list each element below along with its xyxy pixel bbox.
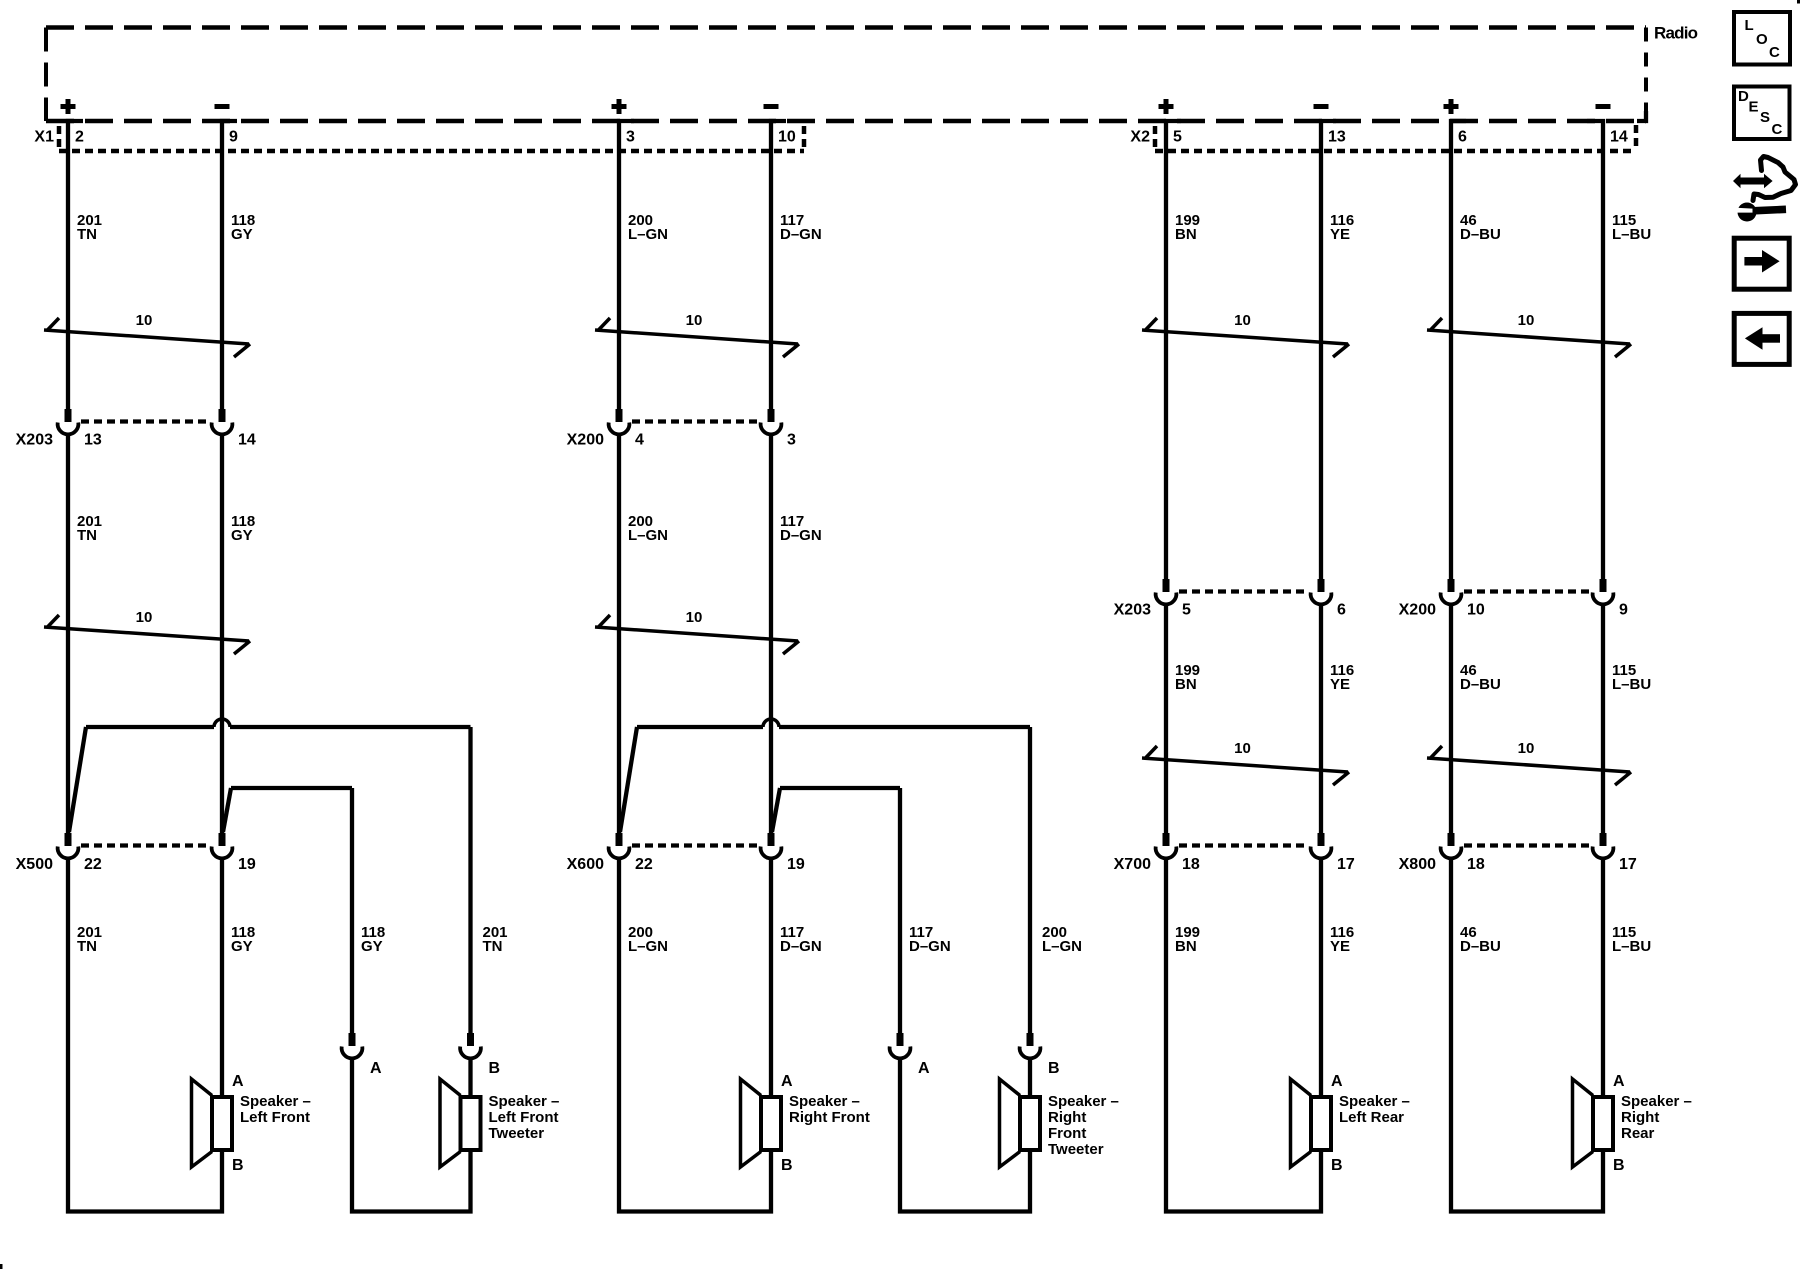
svg-text:L: L — [1745, 17, 1754, 34]
twisted pair symbol (10) — [595, 330, 798, 344]
polarity + above pin 3 — [612, 104, 627, 109]
wire 115 L–BU to speaker A — [1601, 858, 1605, 1097]
svg-text:17: 17 — [1337, 856, 1355, 873]
speaker - Right Front Tweeter — [1000, 1079, 1021, 1167]
svg-text:Left Rear: Left Rear — [1339, 1109, 1404, 1126]
svg-text:10: 10 — [136, 312, 153, 329]
polarity + above pin 5 — [1159, 104, 1174, 109]
svg-text:Tweeter: Tweeter — [1048, 1141, 1104, 1158]
wire 201 TN from radio pin (segment 1) — [68, 121, 83, 411]
svg-text:10: 10 — [1234, 312, 1251, 329]
svg-text:L–GN: L–GN — [628, 226, 668, 243]
speaker connector X500 pin 19 — [219, 833, 226, 846]
inline connector X203 pin 13 — [65, 409, 72, 422]
svg-text:X200: X200 — [1399, 602, 1436, 619]
diagnostic tools icon — [1740, 178, 1765, 185]
DESC reference box — [1734, 87, 1790, 140]
svg-text:18: 18 — [1467, 856, 1485, 873]
wire branch 200 L–GN to tweeter B — [620, 727, 637, 832]
wire 201 TN (segment 2) — [66, 434, 70, 835]
X800 dotted link — [1464, 843, 1590, 847]
svg-text:18: 18 — [1182, 856, 1200, 873]
svg-text:Right: Right — [1621, 1109, 1659, 1126]
svg-text:A: A — [918, 1060, 930, 1077]
polarity - above pin 9 — [215, 104, 230, 109]
speaker connector X500 pin 22 — [65, 833, 72, 846]
wire 118 GY (segment 2) — [220, 434, 224, 835]
wire 199 BN loop to speaker B — [1166, 858, 1321, 1212]
svg-text:10: 10 — [136, 609, 153, 626]
svg-text:D–GN: D–GN — [780, 226, 822, 243]
svg-text:B: B — [489, 1060, 501, 1077]
svg-text:D–BU: D–BU — [1460, 226, 1501, 243]
svg-text:C: C — [1772, 121, 1783, 138]
svg-text:S: S — [1760, 109, 1770, 126]
svg-text:X500: X500 — [16, 856, 53, 873]
svg-text:A: A — [232, 1073, 244, 1090]
svg-text:10: 10 — [778, 129, 796, 146]
svg-text:Speaker –: Speaker – — [240, 1093, 311, 1110]
polarity + above pin 2 — [61, 104, 76, 109]
svg-text:D–GN: D–GN — [909, 938, 951, 955]
svg-text:X2: X2 — [1130, 129, 1150, 146]
svg-text:L–GN: L–GN — [1042, 938, 1082, 955]
polarity + above pin 6 — [1444, 104, 1459, 109]
wire 117 D–GN (segment 2) — [769, 434, 773, 835]
wire 115 L–BU from radio pin (segment 1) — [1587, 121, 1603, 583]
svg-text:22: 22 — [84, 856, 102, 873]
wire 118 GY to speaker A — [220, 858, 224, 1097]
speaker connector X700 pin 18 — [1163, 833, 1170, 846]
polarity - above pin 13 — [1314, 104, 1329, 109]
svg-text:B: B — [1048, 1060, 1060, 1077]
svg-text:D–GN: D–GN — [780, 527, 822, 544]
wire 116 YE from radio pin (segment 1) — [1321, 121, 1336, 583]
svg-text:Speaker –: Speaker – — [1048, 1093, 1119, 1110]
svg-text:3: 3 — [787, 432, 796, 449]
svg-text:Right: Right — [1048, 1109, 1086, 1126]
polarity - above pin 14 — [1596, 104, 1611, 109]
inline connector X200 pin 9 — [1600, 579, 1607, 592]
wire branch 118 GY to tweeter A — [223, 788, 231, 832]
twisted pair symbol (10) — [1142, 330, 1348, 344]
wire 200 L–GN (segment 2) — [617, 434, 621, 835]
svg-text:TN: TN — [77, 226, 97, 243]
svg-text:Right Front: Right Front — [789, 1109, 870, 1126]
twisted pair symbol (10) — [1142, 758, 1348, 772]
svg-text:O: O — [1756, 31, 1768, 48]
wire 200 L–GN from radio pin (segment 1) — [619, 121, 634, 411]
svg-text:D–GN: D–GN — [780, 938, 822, 955]
svg-text:Speaker –: Speaker – — [489, 1093, 560, 1110]
svg-text:Rear: Rear — [1621, 1125, 1655, 1142]
LOC reference box — [1734, 12, 1790, 65]
svg-text:C: C — [1769, 44, 1780, 61]
svg-text:13: 13 — [84, 432, 102, 449]
tweeter lead connector B — [1027, 1033, 1034, 1046]
svg-text:5: 5 — [1173, 129, 1182, 146]
svg-text:B: B — [232, 1157, 244, 1174]
svg-text:Left Front: Left Front — [240, 1109, 310, 1126]
svg-text:TN: TN — [483, 938, 503, 955]
svg-text:A: A — [1613, 1073, 1625, 1090]
speaker connector X600 pin 22 — [616, 833, 623, 846]
connector X2 (dotted) — [1153, 126, 1158, 151]
svg-text:10: 10 — [1518, 740, 1535, 757]
svg-text:YE: YE — [1330, 938, 1350, 955]
svg-text:X700: X700 — [1114, 856, 1151, 873]
svg-text:A: A — [370, 1060, 382, 1077]
svg-text:D–BU: D–BU — [1460, 938, 1501, 955]
svg-text:BN: BN — [1175, 226, 1197, 243]
speaker connector X800 pin 17 — [1600, 833, 1607, 846]
wire 199 BN from radio pin (segment 1) — [1166, 121, 1181, 583]
wire 201 TN loop to speaker B — [68, 858, 222, 1212]
svg-text:B: B — [1331, 1157, 1343, 1174]
svg-text:B: B — [781, 1157, 793, 1174]
svg-text:9: 9 — [1619, 602, 1628, 619]
wire 200 L–GN loop to speaker B — [619, 858, 771, 1212]
wire 46 D–BU from radio pin (segment 1) — [1451, 121, 1466, 583]
svg-text:Front: Front — [1048, 1125, 1086, 1142]
forward arrow box — [1734, 238, 1789, 289]
svg-text:6: 6 — [1337, 602, 1346, 619]
wire tweeter loop — [900, 1058, 1030, 1212]
X203 dotted link — [81, 419, 209, 423]
svg-text:10: 10 — [686, 609, 703, 626]
wire 115 L–BU (segment 2) — [1601, 604, 1605, 835]
svg-text:Speaker –: Speaker – — [789, 1093, 860, 1110]
svg-text:BN: BN — [1175, 938, 1197, 955]
speaker - Left Front — [192, 1079, 213, 1167]
svg-text:GY: GY — [231, 938, 253, 955]
svg-text:YE: YE — [1330, 676, 1350, 693]
X200 dotted link — [1464, 589, 1590, 593]
X600 dotted link — [632, 843, 758, 847]
svg-text:X203: X203 — [16, 432, 53, 449]
speaker connector X700 pin 17 — [1318, 833, 1325, 846]
svg-text:Tweeter: Tweeter — [489, 1125, 545, 1142]
svg-text:E: E — [1749, 98, 1759, 115]
svg-text:10: 10 — [686, 312, 703, 329]
svg-text:L–GN: L–GN — [628, 527, 668, 544]
svg-text:13: 13 — [1328, 129, 1346, 146]
tweeter lead connector A — [349, 1033, 356, 1046]
wire 116 YE (segment 2) — [1319, 604, 1323, 835]
svg-text:X1: X1 — [34, 129, 54, 146]
inline connector X203 pin 5 — [1163, 579, 1170, 592]
svg-text:Speaker –: Speaker – — [1621, 1093, 1692, 1110]
speaker - Right Rear — [1573, 1079, 1594, 1167]
svg-text:D: D — [1738, 88, 1749, 105]
wire tweeter B lead to tweeter — [468, 1058, 472, 1097]
svg-text:L–BU: L–BU — [1612, 226, 1651, 243]
svg-text:22: 22 — [635, 856, 653, 873]
wire 116 YE to speaker A — [1319, 858, 1323, 1097]
X203 dotted link — [1179, 589, 1308, 593]
X700 dotted link — [1179, 843, 1308, 847]
inline connector X203 pin 6 — [1318, 579, 1325, 592]
twisted pair symbol (10) — [1427, 330, 1630, 344]
twisted pair symbol (10) — [44, 627, 249, 641]
svg-text:3: 3 — [626, 129, 635, 146]
svg-text:X203: X203 — [1114, 602, 1151, 619]
wire tweeter B lead to tweeter — [1028, 1058, 1032, 1097]
inline connector X200 pin 4 — [616, 409, 623, 422]
wire tweeter loop — [352, 1058, 471, 1212]
speaker connector X800 pin 18 — [1448, 833, 1455, 846]
svg-text:B: B — [1613, 1157, 1625, 1174]
Radio box (dashed outline) — [46, 25, 1646, 30]
tweeter lead connector B — [467, 1033, 474, 1046]
back arrow box — [1734, 313, 1789, 364]
svg-text:2: 2 — [75, 129, 84, 146]
wire branch 117 D–GN to tweeter A — [772, 788, 780, 832]
svg-text:17: 17 — [1619, 856, 1637, 873]
svg-text:GY: GY — [231, 226, 253, 243]
svg-text:X600: X600 — [567, 856, 604, 873]
svg-text:14: 14 — [1610, 129, 1628, 146]
svg-text:Left Front: Left Front — [489, 1109, 559, 1126]
svg-text:14: 14 — [238, 432, 256, 449]
svg-text:Radio: Radio — [1654, 23, 1698, 42]
inline connector X200 pin 10 — [1448, 579, 1455, 592]
svg-text:9: 9 — [229, 129, 238, 146]
speaker - Left Front Tweeter — [440, 1079, 461, 1167]
svg-text:10: 10 — [1234, 740, 1251, 757]
svg-text:BN: BN — [1175, 676, 1197, 693]
twisted pair symbol (10) — [1427, 758, 1630, 772]
svg-text:6: 6 — [1458, 129, 1467, 146]
wire branch 201 TN to tweeter B — [69, 727, 86, 832]
polarity - above pin 10 — [764, 104, 779, 109]
svg-text:YE: YE — [1330, 226, 1350, 243]
page corner mark top-right — [1797, 0, 1800, 4]
svg-text:GY: GY — [361, 938, 383, 955]
svg-text:4: 4 — [635, 432, 644, 449]
wire 118 GY from radio pin (segment 1) — [222, 121, 237, 411]
svg-text:GY: GY — [231, 527, 253, 544]
connector X1 (dotted) — [57, 126, 62, 151]
inline connector X203 pin 14 — [219, 409, 226, 422]
speaker - Right Front — [741, 1079, 762, 1167]
wire 46 D–BU (segment 2) — [1449, 604, 1453, 835]
twisted pair symbol (10) — [595, 627, 798, 641]
wire 117 D–GN from radio pin (segment 1) — [771, 121, 786, 411]
svg-text:19: 19 — [787, 856, 805, 873]
svg-text:L–BU: L–BU — [1612, 676, 1651, 693]
svg-text:L–GN: L–GN — [628, 938, 668, 955]
wire 117 D–GN to speaker A — [769, 858, 773, 1097]
Radio box corner dash bottom-right — [1637, 111, 1646, 121]
svg-text:TN: TN — [77, 527, 97, 544]
speaker - Left Rear — [1291, 1079, 1312, 1167]
svg-text:D–BU: D–BU — [1460, 676, 1501, 693]
svg-text:A: A — [1331, 1073, 1343, 1090]
svg-text:10: 10 — [1467, 602, 1485, 619]
twisted pair symbol (10) — [44, 330, 249, 344]
svg-text:A: A — [781, 1073, 793, 1090]
speaker connector X600 pin 19 — [768, 833, 775, 846]
svg-text:5: 5 — [1182, 602, 1191, 619]
inline connector X200 pin 3 — [768, 409, 775, 422]
tweeter lead connector A — [897, 1033, 904, 1046]
svg-text:19: 19 — [238, 856, 256, 873]
svg-text:Speaker –: Speaker – — [1339, 1093, 1410, 1110]
wire 46 D–BU loop to speaker B — [1451, 858, 1603, 1212]
X500 dotted link — [81, 843, 209, 847]
svg-text:10: 10 — [1518, 312, 1535, 329]
wire 199 BN (segment 2) — [1164, 604, 1168, 835]
svg-text:TN: TN — [77, 938, 97, 955]
X200 dotted link — [632, 419, 758, 423]
svg-text:X200: X200 — [567, 432, 604, 449]
page corner mark bottom-left — [0, 1264, 3, 1269]
svg-text:X800: X800 — [1399, 856, 1436, 873]
svg-text:L–BU: L–BU — [1612, 938, 1651, 955]
